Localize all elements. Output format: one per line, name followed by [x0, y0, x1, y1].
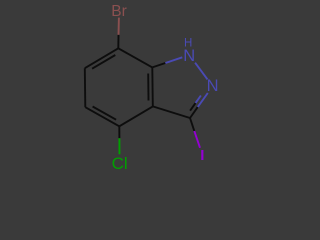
bond C7-C6 [85, 48, 119, 68]
bond C7a-C7 [118, 48, 152, 67]
bond C6-C5 [84, 68, 87, 107]
svg-text:Br: Br [111, 3, 127, 20]
bond N2-C3 [198, 93, 208, 107]
bond C4-Cl [118, 126, 120, 138]
bond C3a-C7a [151, 67, 154, 106]
svg-text:N: N [207, 77, 219, 95]
svg-text:N: N [183, 47, 195, 65]
bond C4-C3a [119, 106, 153, 126]
bond N1-N2 [195, 63, 207, 80]
molecule: 7-bromo-4-chloro-3-iodo-1H-indazole [0, 0, 300, 176]
bond C7a-N1 [152, 63, 165, 67]
svg-text:I: I [200, 147, 204, 164]
svg-text:Cl: Cl [112, 154, 128, 173]
bond C3-I [190, 118, 194, 131]
bond C3-C3a [153, 106, 190, 118]
bond Br-C7 [118, 18, 120, 35]
bond C5-C4 [85, 107, 119, 126]
